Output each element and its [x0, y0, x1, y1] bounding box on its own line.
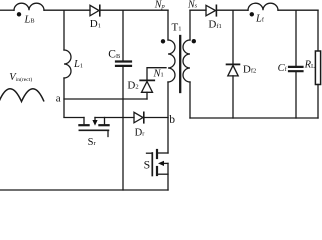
diode Dr	[134, 112, 143, 123]
svg-text:Dr: Dr	[135, 127, 146, 138]
wire D2 anode down to node a wire	[146, 92, 148, 99]
inductor L1	[64, 50, 71, 78]
wire Cf branch upper	[295, 10, 297, 66]
svg-text:Np: Np	[154, 0, 166, 11]
wire Df2 branch upper	[232, 10, 234, 64]
inductor Lf	[248, 3, 278, 10]
capacitor CB branch wire lower to bottom rail	[122, 67, 124, 190]
svg-text:Sr: Sr	[88, 137, 97, 148]
wire Dr to node b	[145, 117, 169, 119]
wire node a horizontal to D2 anode	[64, 98, 147, 100]
wire L1 branch from top rail	[63, 10, 65, 50]
wire output right edge lower	[317, 85, 319, 119]
transistor Sr (synchronous switch, horizontal MOSFET)	[79, 118, 108, 137]
wire L1 down to node a	[63, 78, 65, 117]
wire a-corner to Sr source	[64, 117, 84, 119]
wire Cf branch lower	[295, 72, 297, 118]
transformer T1 core	[179, 36, 181, 92]
svg-text:D2: D2	[127, 79, 138, 91]
resistor RL	[315, 51, 320, 85]
wire top-left input rail	[0, 9, 14, 11]
capacitor CB plates	[116, 62, 131, 66]
wire node b vertical (primary bottom lead down to switch S)	[167, 82, 169, 153]
wire secondary bottom rail	[190, 117, 318, 119]
svg-text:CB: CB	[108, 49, 120, 61]
wire Np lead down to T1 primary	[167, 10, 169, 40]
wire secondary bottom lead	[189, 82, 191, 118]
capacitor Cf plates	[289, 67, 303, 71]
capacitor CB branch wire upper	[122, 10, 124, 61]
transformer T1 secondary winding (right)	[183, 40, 190, 82]
svg-text:S: S	[144, 157, 151, 171]
wire Ns lead up from secondary	[189, 10, 191, 40]
svg-text:Vin(rect): Vin(rect)	[9, 72, 32, 83]
svg-text:N1: N1	[153, 68, 164, 79]
transformer T1 primary winding Np/N1 (left, tapped)	[168, 40, 175, 82]
dot LB polarity	[17, 12, 21, 16]
svg-text:b: b	[169, 114, 175, 126]
svg-text:RL: RL	[304, 60, 315, 71]
wire Ns corner to Df1	[190, 9, 206, 11]
source Vin(rect) rectified-sine symbol	[0, 89, 44, 102]
svg-text:Cf: Cf	[278, 63, 288, 74]
diode Df1	[206, 5, 216, 16]
svg-text:L1: L1	[73, 59, 83, 70]
svg-text:Df1: Df1	[208, 19, 221, 31]
svg-text:D1: D1	[90, 18, 101, 30]
wire D1 to Np corner	[101, 9, 169, 11]
svg-text:Lf: Lf	[255, 13, 265, 24]
dot Lf polarity	[250, 12, 254, 16]
inductor LB	[14, 3, 44, 10]
diode D2	[142, 81, 153, 92]
wire LB to D1	[44, 9, 90, 11]
wire Df1 to Lf	[217, 9, 248, 11]
wire output right edge upper	[317, 10, 319, 51]
dot T1 secondary polarity	[192, 39, 196, 43]
wire Lf to output corner	[278, 9, 318, 11]
svg-text:Ns: Ns	[187, 0, 198, 10]
dot T1 primary polarity	[161, 39, 165, 43]
wire tap N1 to D2 cathode	[147, 68, 166, 80]
svg-text:a: a	[56, 92, 61, 104]
transistor S (main switch, vertical MOSFET)	[147, 150, 169, 190]
diode Df2	[228, 65, 238, 76]
svg-text:T1: T1	[172, 22, 182, 34]
wire Sr drain to Dr	[95, 117, 134, 119]
diode D1	[90, 5, 99, 16]
wire bottom-left ground rail	[0, 189, 168, 191]
svg-text:Df2: Df2	[243, 64, 256, 76]
svg-text:LB: LB	[24, 15, 35, 26]
wire Df2 branch lower	[232, 76, 234, 118]
